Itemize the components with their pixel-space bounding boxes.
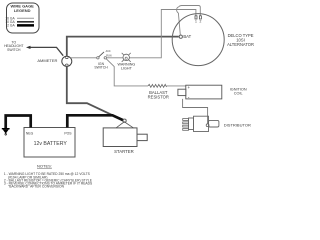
ignition coil T1 (178, 85, 247, 101)
svg-text:2: 2 (199, 20, 201, 24)
notes (4, 164, 93, 189)
alternator U1 (172, 14, 254, 66)
svg-text:SWITCH: SWITCH (7, 48, 21, 52)
svg-text:DISTRIBUTOR: DISTRIBUTOR (224, 123, 251, 128)
distributor (183, 116, 251, 131)
wire: alternator BAT to ammeter (10ga) (67, 37, 179, 57)
wire: battery NEG to ground (2ga) (6, 116, 31, 129)
svg-text:STARTER: STARTER (114, 149, 134, 154)
svg-text:"BACKWARD" AFTER CONVERSION: "BACKWARD" AFTER CONVERSION (8, 184, 65, 188)
svg-text:+: + (188, 85, 191, 90)
wire: battery POS to starter post (2ga) (67, 115, 123, 127)
svg-text:1: 1 (195, 20, 197, 24)
ammeter A1 (37, 56, 71, 66)
wire: BAT sense to terminal 2 with hop (16ga) (177, 6, 201, 35)
svg-text:NOTES:: NOTES: (37, 164, 52, 169)
alternator terminal 2 (199, 16, 201, 24)
svg-text:SWITCH: SWITCH (94, 66, 108, 70)
svg-text:2 GA: 2 GA (7, 24, 15, 28)
svg-text:ALTERNATOR: ALTERNATOR (227, 42, 254, 47)
svg-text:POS: POS (64, 132, 72, 136)
label: to headlight switch (4, 41, 23, 52)
wire: ammeter down to starter post (10ga) (67, 66, 124, 120)
wire: coil - to distributor (16ga) (183, 99, 208, 124)
svg-text:12v BATTERY: 12v BATTERY (34, 141, 68, 147)
wire: headlight feed with arrow to ammeter (26, 46, 63, 56)
svg-text:LIGHT: LIGHT (121, 66, 133, 70)
wire: switch to ballast resistor (16ga) (106, 59, 148, 86)
svg-text:LEGEND: LEGEND (14, 8, 31, 13)
alternator terminal 1 (195, 16, 197, 24)
warning light DS1 (118, 53, 136, 71)
ballast resistor R1 (148, 84, 169, 99)
svg-text:BAT: BAT (183, 34, 191, 39)
svg-text:ACC: ACC (106, 50, 111, 53)
wire gage legend box (5, 3, 39, 33)
svg-text:AMMETER: AMMETER (37, 58, 57, 63)
starter M1 (103, 122, 147, 154)
wire: ammeter to ignition switch (16ga) (70, 57, 96, 59)
svg-text:COIL: COIL (234, 92, 243, 96)
svg-text:NEG: NEG (26, 132, 34, 136)
ignition switch S1 (94, 50, 111, 70)
wire: ballast to coil + (16ga) (167, 85, 186, 87)
wire: switch to warning light to riser (16ga) (107, 10, 196, 58)
ground (2, 129, 10, 135)
svg-text:RUN: RUN (106, 55, 111, 58)
svg-text:RESISTOR: RESISTOR (148, 95, 169, 100)
battery B1 (24, 128, 75, 158)
starter post junction (123, 119, 126, 122)
